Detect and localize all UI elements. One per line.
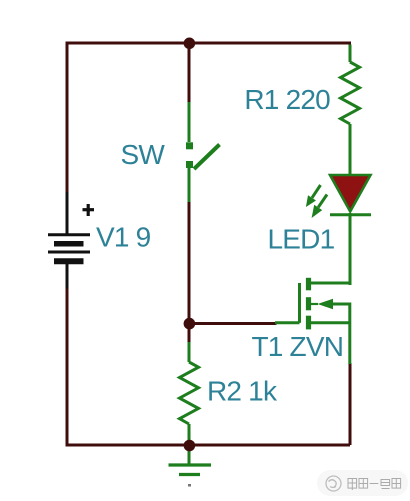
wire top horizontal — [66, 42, 352, 45]
channel bar body — [306, 297, 311, 310]
wire switch branch upper — [188, 43, 191, 103]
battery V1 — [48, 192, 90, 289]
wire source lower vertical — [349, 363, 352, 445]
svg-text:SW: SW — [121, 139, 166, 170]
resistor R1 — [341, 45, 360, 177]
LED1 — [330, 175, 371, 285]
watermark logo — [326, 476, 341, 491]
battery plus sign — [83, 204, 95, 216]
transistor T1 MOSFET — [275, 278, 350, 364]
wire left vertical upper — [66, 42, 69, 195]
svg-text:T1 ZVN: T1 ZVN — [252, 331, 344, 362]
drain vertical to LED — [348, 283, 351, 285]
svg-text:LED1: LED1 — [268, 223, 335, 254]
source wire — [310, 321, 350, 324]
wire R2 top — [188, 324, 191, 345]
svg-text:V1 9: V1 9 — [96, 221, 151, 252]
wire bottom horizontal — [66, 444, 351, 447]
wire gate horizontal — [189, 322, 277, 325]
ground third bar dot — [188, 484, 191, 487]
channel bar source — [306, 316, 311, 330]
svg-text:R1 220: R1 220 — [244, 84, 330, 115]
gate lead green — [275, 321, 300, 324]
resistor R2 — [180, 342, 199, 446]
svg-text:R2 1k: R2 1k — [207, 376, 278, 407]
watermark text — [348, 479, 401, 491]
body-source vertical — [348, 303, 351, 365]
ground — [169, 445, 212, 475]
wire left vertical lower — [66, 287, 69, 447]
node top junction — [184, 38, 196, 50]
drain wire — [310, 282, 350, 285]
node bottom junction — [184, 440, 196, 452]
switch SW — [186, 102, 220, 202]
LED1 light arrows — [306, 185, 327, 218]
watermark background — [317, 470, 408, 496]
wire switch branch lower — [188, 201, 191, 324]
body arrow — [311, 303, 318, 305]
channel bar drain — [306, 278, 311, 291]
gate line — [298, 283, 301, 323]
node gate junction — [184, 318, 196, 330]
